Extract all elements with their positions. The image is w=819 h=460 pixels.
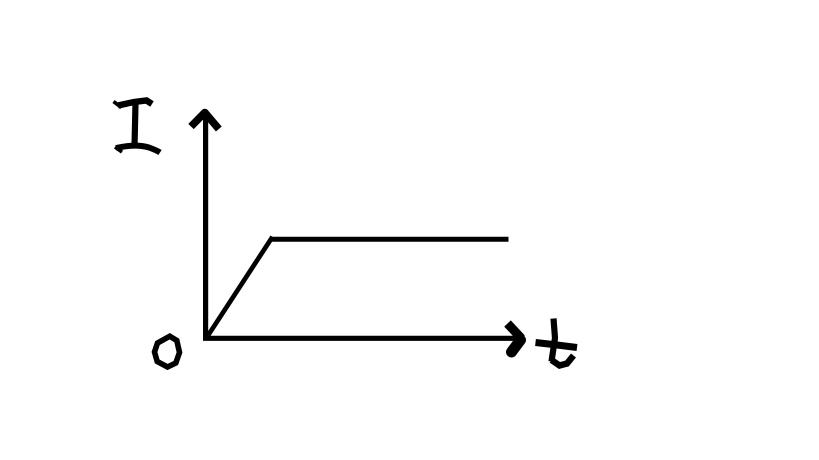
axis label I : top bar (114, 102, 122, 108)
y-axis shaft and x-axis (current axis / time axis) (206, 113, 515, 338)
axis label I : vertical stroke (135, 103, 136, 147)
axis label I : bottom bar (115, 147, 122, 152)
y-axis arrowhead (191, 113, 219, 130)
axis label t : foot hook (552, 356, 574, 366)
axis label t : crossbar (536, 343, 578, 348)
origin label O (155, 336, 180, 367)
current plateau segment (horizontal line) (271, 237, 509, 242)
x-axis arrowhead lower barb (512, 340, 521, 352)
current ramp segment (rising line from origin) (208, 237, 273, 336)
x-axis arrowhead upper barb (508, 324, 522, 339)
axis label t : vertical stroke (552, 319, 556, 362)
